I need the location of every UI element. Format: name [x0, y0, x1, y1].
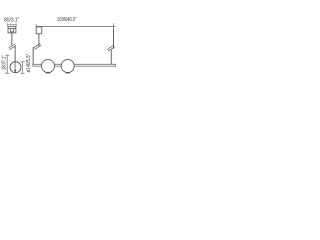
- suspension wire W3 (right): [112, 28, 114, 49]
- break symbol B3: [107, 45, 115, 51]
- sphere S2 bottom cap: [66, 72, 70, 74]
- arrowhead at rod end: [14, 70, 16, 73]
- svg-text:1030/40.5″: 1030/40.5″: [57, 17, 76, 23]
- lower rod R2: [32, 47, 34, 64]
- canopy C2 (side view): [36, 27, 42, 34]
- canopy C1 (end view): [8, 27, 16, 33]
- break symbol B1: [9, 44, 17, 50]
- tube (side view): [33, 64, 116, 66]
- sphere S1: [42, 60, 55, 73]
- svg-text:ø140/5.5″: ø140/5.5″: [26, 54, 32, 73]
- svg-text:180/7.1″: 180/7.1″: [1, 55, 7, 70]
- sphere S2: [61, 60, 74, 73]
- suspension wire W2: [38, 34, 40, 47]
- dimension line 80 (canopy width): [8, 23, 17, 26]
- break symbol B2: [34, 43, 42, 49]
- lower rod R1 (end view axis): [14, 46, 16, 72]
- sphere S1 bottom cap: [46, 72, 50, 74]
- svg-text:80/3.1″: 80/3.1″: [4, 17, 19, 23]
- lower rod R3: [110, 50, 112, 65]
- sphere E1 (end view): [10, 62, 21, 73]
- suspension wire W1: [11, 33, 13, 45]
- rod through sphere: [14, 62, 16, 72]
- diameter dimension 140: [20, 62, 24, 74]
- ceiling / dimension line 1030: [36, 25, 115, 27]
- height dimension 180: [5, 55, 9, 73]
